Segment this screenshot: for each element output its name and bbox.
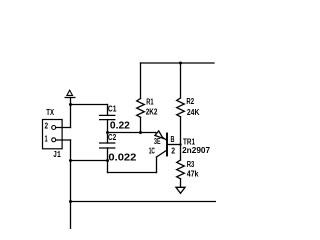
wire C1 bottom to C2 top [107,120,109,143]
transistor TR1 base bar [166,134,168,156]
svg-text:1C: 1C [149,147,155,156]
resistor R2 [177,98,185,117]
emitter arrow head (PNP, into base) [155,131,163,138]
svg-text:2n2907: 2n2907 [182,146,211,155]
svg-text:1: 1 [45,135,49,144]
svg-text:C2: C2 [108,133,117,142]
pin 2 circle [52,126,56,130]
wire emitter diagonal to bar [156,133,167,141]
wire C2 bottom lead down [107,148,109,173]
wire pin2 to power stem [56,127,71,129]
svg-text:B: B [171,135,175,144]
junction dot pin1 vertical [69,159,72,162]
wire R1 top lead [140,63,142,99]
wire node to C2 bottom junction [71,160,108,162]
resistor R3 [177,160,185,179]
wire collector bottom horizontal [108,172,157,174]
svg-text:2K2: 2K2 [146,108,158,117]
svg-text:R2: R2 [186,97,194,106]
wire collector vertical [156,157,158,173]
wire supply to C1 [71,104,108,106]
wire C1 top lead [107,105,109,116]
svg-text:C1: C1 [108,105,117,114]
resistor R1 [137,99,145,118]
connector J1 box [43,120,63,149]
junction dot top rail / R2 [179,62,182,65]
svg-text:R1: R1 [146,97,154,106]
wire collector diagonal to bar [157,151,167,158]
junction dot base node [179,143,181,145]
wire R1 bottom lead [140,117,142,132]
svg-text:TX: TX [46,108,54,117]
wire R2 bottom lead to base node [180,117,182,145]
wire power stem down to pin2 wire [70,98,72,128]
wire pin1 vertical down to bottom edge [70,140,72,229]
pin 1 circle [52,138,56,142]
ground arrow (down) [176,187,185,193]
svg-text:R3: R3 [187,160,195,169]
svg-text:0.22: 0.22 [110,120,131,131]
junction dot C1/C2 node [106,131,109,134]
junction dot pin1/C2 [106,159,109,162]
wire R3 bottom lead [180,179,182,188]
svg-text:47k: 47k [187,170,199,179]
capacitor C2 [100,142,115,144]
wire pin1 horizontal [56,139,71,141]
junction dot bottom rail [69,200,72,203]
svg-text:J1: J1 [53,149,61,160]
svg-text:2: 2 [171,147,175,156]
capacitor C1 [100,114,115,116]
svg-text:3E: 3E [154,137,161,146]
wire top supply rail [141,62,215,64]
junction dot R1/emitter node [139,131,142,134]
wire emitter node horizontal [108,132,156,134]
svg-text:24K: 24K [187,108,200,117]
power arrow (up) [67,90,73,95]
wire R2 top lead [180,63,182,98]
svg-text:2: 2 [45,122,49,131]
svg-text:TR1: TR1 [183,137,195,146]
wire bottom rail [71,201,217,203]
wire base node to R3 [180,145,182,161]
svg-text:0.022: 0.022 [108,153,137,164]
power crossbar [65,97,75,99]
wire base lead [168,144,181,146]
junction dot supply [69,103,72,106]
